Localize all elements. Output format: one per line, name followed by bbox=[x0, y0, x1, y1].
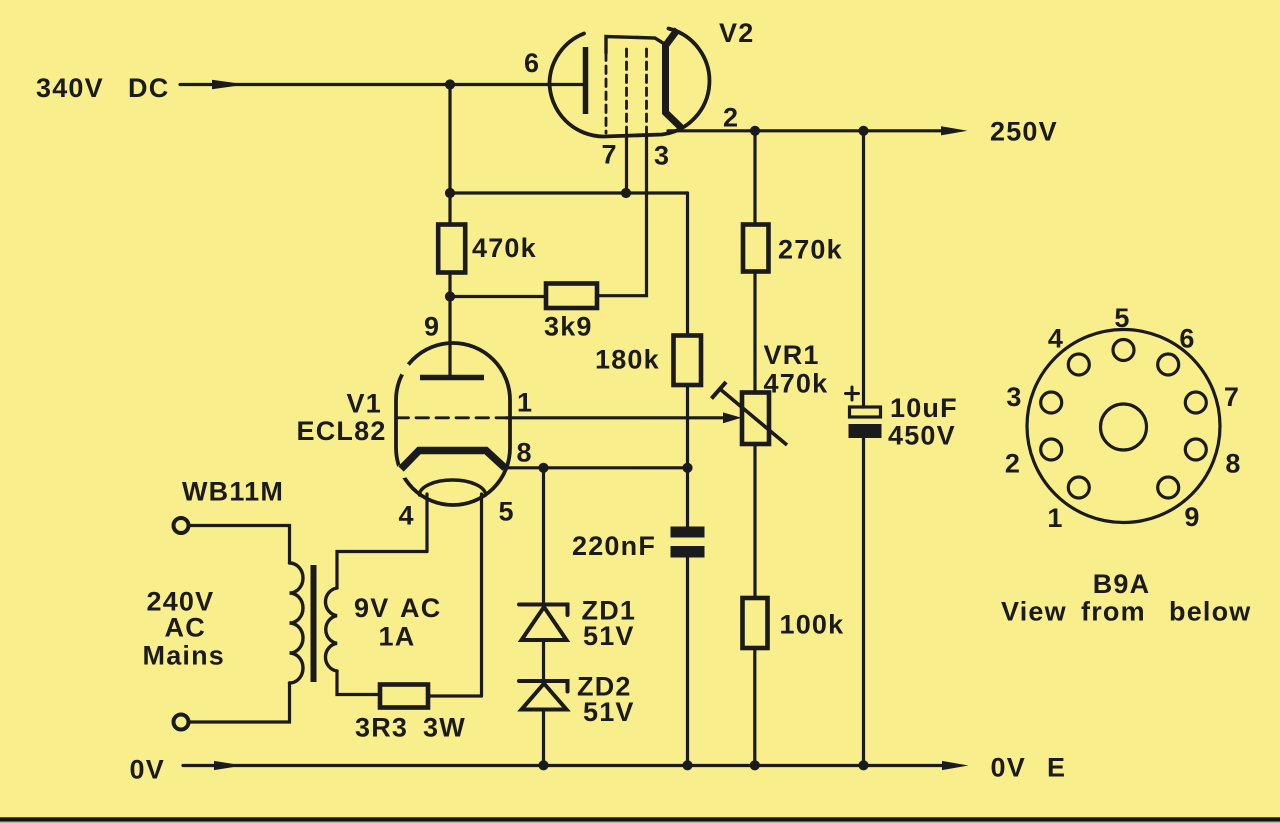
bottom page strip bbox=[0, 822, 1280, 823]
V1 heater pin 5 leg bbox=[480, 494, 483, 696]
svg-text:2: 2 bbox=[1005, 449, 1021, 479]
svg-text:3: 3 bbox=[654, 141, 670, 171]
junction 0V / 100k branch bbox=[750, 760, 760, 770]
wire secondary top to heater pin 4 bbox=[337, 552, 427, 589]
potentiometer VR1 body bbox=[742, 393, 769, 445]
arrowhead VR1 wiper bbox=[723, 412, 742, 423]
svg-text:0V: 0V bbox=[991, 753, 1026, 783]
svg-text:450V: 450V bbox=[888, 421, 956, 451]
transformer core bbox=[311, 565, 317, 682]
wire 0V rail bbox=[183, 764, 943, 767]
V2 pin 3 lead to 3k9 bbox=[597, 135, 647, 296]
svg-text:ECL82: ECL82 bbox=[297, 416, 387, 446]
B9A pin hole 9 bbox=[1158, 477, 1179, 498]
V1 heater dome bbox=[420, 480, 486, 495]
svg-text:340V: 340V bbox=[36, 73, 104, 103]
envelope gap erase lower-left bbox=[396, 464, 410, 478]
wire 100k bottom to 0V rail bbox=[753, 648, 756, 765]
envelope gap erase upper-left bbox=[399, 363, 411, 375]
svg-text:DC: DC bbox=[128, 73, 169, 103]
bottom page rule bbox=[0, 817, 1280, 821]
wire zener branch upper bbox=[542, 468, 545, 605]
resistor 180k body bbox=[674, 336, 702, 386]
svg-text:1A: 1A bbox=[379, 622, 416, 652]
svg-text:WB11M: WB11M bbox=[182, 477, 284, 507]
svg-text:0V: 0V bbox=[130, 755, 165, 785]
wire node A horizontal (340V dropper to 180k branch) bbox=[450, 191, 688, 194]
B9A pin hole 1 bbox=[1068, 477, 1089, 498]
wire 270k bottom to VR1 top bbox=[753, 272, 756, 393]
mains terminal bottom bbox=[174, 715, 189, 730]
wire 10uF branch top bbox=[862, 131, 865, 407]
svg-text:180k: 180k bbox=[595, 345, 660, 375]
svg-text:100k: 100k bbox=[780, 610, 845, 640]
V2 grid g2 dashed bbox=[625, 49, 628, 135]
junction node A left bbox=[445, 188, 455, 198]
V1 pin 9 lead bbox=[448, 297, 451, 378]
svg-text:3W: 3W bbox=[423, 713, 466, 743]
junction node A / V2 pin 7 bbox=[621, 188, 631, 198]
svg-text:V2: V2 bbox=[719, 18, 754, 48]
B9A pin hole 3 bbox=[1041, 392, 1062, 413]
B9A pin hole 6 bbox=[1158, 354, 1179, 375]
junction 250V rail / 270k branch bbox=[750, 126, 760, 136]
svg-text:below: below bbox=[1169, 597, 1252, 627]
resistor 270k body bbox=[743, 225, 769, 272]
arrowhead on 340V rail bbox=[212, 80, 246, 89]
svg-text:3: 3 bbox=[1006, 382, 1022, 412]
V1 heater pin 4 leg bbox=[425, 494, 428, 552]
junction 0V / 220nF branch bbox=[682, 760, 692, 770]
svg-text:3k9: 3k9 bbox=[544, 312, 593, 342]
svg-text:250V: 250V bbox=[990, 117, 1058, 147]
B9A socket outline bbox=[1027, 330, 1220, 523]
capacitor 220nF bottom plate bbox=[671, 546, 705, 558]
svg-text:4: 4 bbox=[399, 501, 415, 531]
V1 cathode bracket bbox=[401, 451, 505, 470]
svg-text:B9A: B9A bbox=[1093, 569, 1151, 599]
junction 0V / zener branch bbox=[538, 760, 548, 770]
VR1 preset diagonal bbox=[720, 389, 787, 445]
wire 180k branch vertical top bbox=[686, 193, 689, 336]
arrowhead 0V rail right bbox=[942, 761, 969, 770]
resistor 3k9 body bbox=[546, 284, 597, 309]
zener ZD1 triangle bbox=[522, 607, 567, 640]
svg-text:270k: 270k bbox=[778, 235, 843, 265]
wire secondary bottom to 3R3 bbox=[337, 671, 380, 695]
wire 250V rail from V2 cathode bbox=[668, 129, 943, 132]
svg-text:1: 1 bbox=[1047, 503, 1063, 533]
V1 grid dashed (pin 1) bbox=[396, 416, 506, 419]
svg-text:V1: V1 bbox=[347, 389, 382, 419]
svg-text:51V: 51V bbox=[583, 697, 635, 727]
wire zener branch lower bbox=[542, 710, 545, 766]
svg-text:1: 1 bbox=[517, 388, 533, 418]
arrowhead 0V rail left bbox=[214, 761, 243, 770]
wire HT dropper vertical from 340V rail bbox=[448, 85, 451, 225]
B9A pin hole 5 bbox=[1113, 340, 1134, 361]
capacitor 10uF negative plate bbox=[849, 424, 882, 438]
svg-text:4: 4 bbox=[1048, 324, 1064, 354]
V2 cathode bracket bbox=[666, 30, 682, 128]
junction 250V rail / 10uF branch bbox=[858, 126, 868, 136]
svg-text:9V: 9V bbox=[354, 593, 389, 623]
B9A pin hole 8 bbox=[1185, 439, 1206, 460]
wire VR1 bottom to 100k top bbox=[753, 444, 756, 598]
svg-text:8: 8 bbox=[1225, 449, 1241, 479]
zener ZD2 cathode bar bbox=[519, 681, 568, 692]
svg-text:51V: 51V bbox=[583, 621, 635, 651]
wire pin 8 to 220nF node bbox=[506, 466, 688, 469]
V2 grid g1 dashed bbox=[645, 49, 648, 135]
V2 grid g3 dashed bbox=[605, 53, 608, 133]
svg-text:8: 8 bbox=[517, 438, 533, 468]
svg-text:7: 7 bbox=[602, 140, 618, 170]
svg-text:Mains: Mains bbox=[143, 641, 226, 671]
B9A pin hole 7 bbox=[1185, 392, 1206, 413]
wire primary bottom to mains terminal bbox=[189, 683, 290, 722]
transformer secondary winding bbox=[325, 588, 337, 671]
svg-text:AC: AC bbox=[165, 613, 206, 643]
svg-text:470k: 470k bbox=[472, 233, 537, 263]
B9A pin hole 2 bbox=[1041, 439, 1062, 460]
svg-text:6: 6 bbox=[524, 48, 540, 78]
svg-text:VR1: VR1 bbox=[764, 340, 820, 370]
svg-text:5: 5 bbox=[1114, 303, 1130, 333]
svg-text:9: 9 bbox=[424, 312, 440, 342]
wire mains top to primary bbox=[189, 526, 290, 564]
transformer primary winding bbox=[290, 563, 304, 683]
wire 180k bottom to 220nF top bbox=[686, 385, 689, 527]
svg-text:3R3: 3R3 bbox=[355, 713, 408, 743]
wire between zeners bbox=[542, 640, 545, 681]
V1 anode bar bbox=[420, 375, 484, 381]
wire 10uF bottom to 0V rail bbox=[862, 438, 865, 765]
junction pin 8 / 180k-220nF branch bbox=[682, 463, 692, 473]
zener ZD2 triangle bbox=[522, 684, 567, 710]
B9A pin hole 4 bbox=[1068, 354, 1089, 375]
capacitor 10uF polarity plus bbox=[846, 387, 859, 400]
svg-text:10uF: 10uF bbox=[890, 393, 958, 423]
triode-pentode V2 envelope bbox=[550, 29, 710, 137]
triode V1 envelope bbox=[396, 343, 510, 505]
svg-text:6: 6 bbox=[1179, 324, 1195, 354]
arrowhead 250V rail bbox=[941, 126, 968, 135]
svg-text:220nF: 220nF bbox=[572, 531, 656, 561]
svg-text:View: View bbox=[1001, 597, 1067, 627]
svg-text:470k: 470k bbox=[764, 369, 829, 399]
V2 anode bar (pin 6) bbox=[583, 47, 589, 114]
resistor 3R3 body bbox=[380, 685, 428, 708]
junction 340V rail / HT dropper bbox=[445, 79, 455, 89]
wire pin 1 to VR1 wiper bbox=[506, 416, 725, 419]
svg-text:from: from bbox=[1081, 597, 1146, 627]
zener ZD1 cathode bar bbox=[519, 605, 568, 616]
VR1 preset end bar bbox=[712, 382, 727, 399]
svg-text:5: 5 bbox=[499, 497, 515, 527]
wire 3R3 right to pin 5 leg bbox=[428, 694, 482, 697]
wire 270k branch top bbox=[753, 131, 756, 225]
wire 340V DC rail to V2 anode bbox=[180, 83, 583, 86]
junction pin 8 / zener branch bbox=[538, 463, 548, 473]
junction node 9 (V1 anode node) bbox=[445, 291, 455, 301]
svg-text:7: 7 bbox=[1224, 382, 1240, 412]
svg-text:9: 9 bbox=[1184, 502, 1200, 532]
B9A centre spigot hole bbox=[1101, 404, 1147, 450]
V2 suppressor-to-cathode strap bbox=[606, 37, 667, 54]
mains terminal top bbox=[174, 518, 189, 533]
wire node 9 to 3k9 left bbox=[450, 295, 546, 298]
svg-text:2: 2 bbox=[723, 103, 739, 133]
svg-text:AC: AC bbox=[400, 593, 441, 623]
wire 470k bottom to node 9 bbox=[448, 273, 451, 297]
capacitor 220nF top plate bbox=[671, 527, 705, 538]
resistor 100k body bbox=[743, 598, 768, 648]
resistor 470k body bbox=[438, 225, 465, 273]
svg-text:E: E bbox=[1047, 753, 1066, 783]
V2 pin 7 lead bbox=[625, 135, 628, 193]
capacitor 10uF positive plate bbox=[850, 407, 881, 417]
junction 0V / 10uF branch bbox=[858, 760, 868, 770]
wire 220nF bottom to 0V rail bbox=[686, 558, 689, 766]
